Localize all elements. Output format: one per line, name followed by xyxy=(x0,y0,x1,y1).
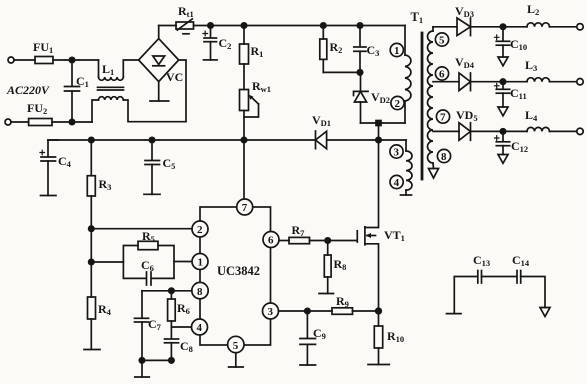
label C9 xyxy=(313,326,326,341)
node junction top of C1 xyxy=(69,57,74,62)
node junction C2 xyxy=(208,23,213,28)
ground C13 xyxy=(447,313,462,315)
ground R8 xyxy=(319,293,334,295)
diode VD4 xyxy=(459,73,527,91)
pin 5 xyxy=(228,336,244,352)
label VD5 xyxy=(456,108,478,123)
svg-text:8: 8 xyxy=(197,286,203,298)
svg-text:VC: VC xyxy=(166,70,183,84)
label VD3 xyxy=(455,4,474,19)
node junction C10 xyxy=(500,24,505,29)
label R9 xyxy=(336,294,349,309)
node junction C12 xyxy=(500,129,505,134)
resistor R10 xyxy=(374,311,382,365)
label C5 xyxy=(163,156,176,171)
wire xyxy=(53,59,99,61)
label C4 xyxy=(58,154,72,169)
pin 6 of T1 xyxy=(435,67,448,80)
wire output rail 3 xyxy=(433,130,459,132)
wire output rail 1 xyxy=(433,26,457,28)
label C12 xyxy=(511,139,528,154)
svg-text:5: 5 xyxy=(439,35,445,47)
ground C11 arrow xyxy=(498,107,508,116)
wire drain node riser xyxy=(378,123,380,140)
wire pin4 left xyxy=(171,326,191,328)
label L1 xyxy=(102,62,114,77)
resistor R6 xyxy=(168,291,176,327)
transformer T1 primary winding 1-2 xyxy=(405,26,411,124)
svg-text:1: 1 xyxy=(198,257,204,269)
node junction R1 top xyxy=(241,23,246,28)
resistor R4 xyxy=(88,262,96,350)
node AC input terminal N xyxy=(5,119,11,125)
resistor R9 xyxy=(332,308,379,315)
transformer T1 core xyxy=(421,33,424,179)
label L2 xyxy=(527,2,539,17)
node junction source xyxy=(376,308,382,314)
ground pin 5 xyxy=(229,353,244,367)
node junction R3 top xyxy=(89,137,94,142)
label C13 xyxy=(473,253,490,268)
capacitor C2 xyxy=(203,26,217,60)
wire down left branch xyxy=(90,229,92,262)
label R6 xyxy=(177,301,190,316)
ground C10 arrow xyxy=(498,57,508,66)
label Rt1 xyxy=(178,4,194,19)
svg-text:AC220V: AC220V xyxy=(6,83,50,97)
node junction bottom of C1 xyxy=(69,119,74,124)
node junction C8 bottom xyxy=(169,358,174,363)
label VD1 xyxy=(312,113,331,128)
inductor L1 common-mode choke xyxy=(92,60,186,122)
svg-text:2: 2 xyxy=(197,224,203,236)
pin 2 xyxy=(192,221,208,237)
ground R10 xyxy=(368,364,389,366)
svg-text:4: 4 xyxy=(394,177,400,189)
node output terminal 2 xyxy=(577,79,583,85)
node junction R5C6 feed xyxy=(89,259,94,264)
label L3 xyxy=(525,58,537,73)
capacitor C5 xyxy=(144,140,160,194)
svg-text:7: 7 xyxy=(440,112,446,124)
node junction R2/C3 bottom xyxy=(357,70,362,75)
svg-text:4: 4 xyxy=(197,322,203,334)
node junction bus-drain xyxy=(376,137,381,142)
label C3 xyxy=(367,43,380,58)
label AC220V xyxy=(6,83,50,97)
ground C7 xyxy=(135,360,150,377)
node junction pin2 feed xyxy=(89,226,94,231)
node junction C9 top xyxy=(305,308,310,313)
node junction R2 top xyxy=(321,23,326,28)
svg-text:1: 1 xyxy=(394,45,400,57)
label C11 xyxy=(510,86,527,101)
node junction C7 bottom xyxy=(139,358,144,363)
label VC xyxy=(166,70,183,84)
diode VD5 xyxy=(459,123,527,141)
transistor VT1 MOSFET xyxy=(357,140,378,311)
pin 6 xyxy=(263,232,279,248)
wire main bus xyxy=(48,139,406,141)
label R2 xyxy=(330,40,343,55)
label C6 xyxy=(141,258,154,273)
svg-text:7: 7 xyxy=(242,202,248,214)
wire bridge top riser xyxy=(158,26,160,39)
resistor R8 xyxy=(324,241,331,294)
label C14 xyxy=(512,253,530,268)
label T1 xyxy=(411,10,424,25)
label C8 xyxy=(180,339,193,354)
label R5 xyxy=(142,229,155,244)
label FU1 xyxy=(33,40,53,55)
wire C7-C8 bottom xyxy=(142,359,171,361)
capacitor C14 xyxy=(482,271,546,308)
label VD2 xyxy=(371,90,390,105)
wire pin6 to R7 xyxy=(279,240,289,242)
diode VD3 xyxy=(457,18,527,36)
transformer T1 secondary winding xyxy=(428,27,434,169)
node junction R8 top xyxy=(325,238,330,243)
pin 4 xyxy=(192,319,208,335)
inductor L4 xyxy=(527,127,577,131)
capacitor C3 xyxy=(354,26,366,73)
capacitor C8 xyxy=(165,327,179,360)
wire VD2 to winding bottom xyxy=(361,122,406,124)
wire pin8 left xyxy=(142,290,192,292)
capacitor C11 xyxy=(495,82,510,107)
svg-text:3: 3 xyxy=(268,306,274,318)
wire pin7 riser xyxy=(243,140,245,199)
pin 2 of T1 xyxy=(391,96,404,109)
pin 4 of T1 xyxy=(390,175,403,188)
label R4 xyxy=(98,302,112,317)
wire top rail xyxy=(194,25,406,27)
node junction C5 top xyxy=(149,137,154,142)
capacitor C4 xyxy=(40,140,58,196)
resistor R7 xyxy=(289,237,357,243)
ground secondary common arrow xyxy=(429,169,439,179)
label Rw1 xyxy=(252,79,271,94)
resistor R5 with capacitor C6 parallel loop xyxy=(123,241,174,285)
fuse FU1 xyxy=(35,57,53,64)
wire to R5C6 loop xyxy=(91,261,123,263)
pin 7 of T1 xyxy=(436,110,449,123)
wire output rail 2 xyxy=(433,81,459,83)
capacitor C1 xyxy=(65,60,80,122)
label C2 xyxy=(219,36,232,51)
wire pin3 right xyxy=(279,310,332,312)
svg-text:8: 8 xyxy=(441,151,447,163)
svg-text:UC3842: UC3842 xyxy=(217,264,260,278)
svg-text:3: 3 xyxy=(394,147,400,159)
potentiometer Rw1 xyxy=(240,90,259,141)
label C1 xyxy=(76,74,89,89)
label FU2 xyxy=(27,101,47,116)
node junction C3 top xyxy=(357,23,362,28)
pin 8 xyxy=(192,282,208,298)
node AC input terminal L xyxy=(8,57,14,63)
node output terminal 1 xyxy=(577,24,583,30)
capacitor C12 xyxy=(495,131,510,154)
svg-text:2: 2 xyxy=(395,98,401,110)
ground R4 xyxy=(84,349,100,351)
diode VD1 xyxy=(316,131,327,149)
capacitor C10 xyxy=(495,27,510,57)
pin 7 xyxy=(237,199,253,215)
label C7 xyxy=(148,317,162,332)
node output terminal 3 xyxy=(577,128,583,134)
ground T1 pin 4 lead xyxy=(401,194,412,196)
node junction R6 top xyxy=(169,288,174,293)
resistor R3 xyxy=(87,140,95,229)
ground C9 xyxy=(300,364,316,366)
node junction C11 xyxy=(500,79,505,84)
wire xyxy=(52,121,92,123)
pin 3 xyxy=(263,303,279,319)
label C10 xyxy=(510,37,527,52)
node square junction drain/snubber xyxy=(376,121,381,126)
fuse FU2 xyxy=(29,119,52,126)
pin 8 of T1 xyxy=(437,149,450,162)
bridge rectifier VC xyxy=(139,39,179,82)
pin 1 of T1 xyxy=(390,43,403,56)
label R10 xyxy=(387,329,404,344)
label R3 xyxy=(99,177,112,192)
thermistor Rt1 xyxy=(176,19,194,34)
ground C14 arrow xyxy=(540,308,550,317)
svg-text:6: 6 xyxy=(439,69,445,81)
svg-text:6: 6 xyxy=(268,235,274,247)
resistor R1 xyxy=(240,26,249,90)
zener diode VD2 xyxy=(354,72,369,123)
inductor L3 xyxy=(527,78,577,82)
inductor L2 xyxy=(527,23,577,27)
pin 3 of T1 xyxy=(390,145,403,158)
capacitor C9 xyxy=(300,311,316,365)
ground C12 arrow xyxy=(498,155,508,164)
wire xyxy=(11,121,29,123)
label R1 xyxy=(251,44,264,59)
wire loop to pin 1 xyxy=(174,261,192,263)
transformer T1 primary winding 3-4 xyxy=(406,140,412,195)
resistor R2 xyxy=(320,26,360,73)
pin 5 of T1 xyxy=(435,33,448,46)
label R8 xyxy=(334,257,347,272)
capacitor C13 xyxy=(454,271,481,314)
label VT1 xyxy=(384,228,405,243)
capacitor C7 xyxy=(135,291,149,361)
label L4 xyxy=(525,108,538,123)
wire to pin 2 xyxy=(91,228,192,230)
wire top rail left xyxy=(159,25,176,27)
label UC3842 xyxy=(217,264,260,278)
ground bridge bottom xyxy=(150,82,169,101)
label R7 xyxy=(292,223,306,238)
op-amp U1 UC3842 box xyxy=(200,207,271,345)
svg-text:5: 5 xyxy=(233,340,239,352)
pin 1 xyxy=(192,254,208,270)
label VD4 xyxy=(455,55,475,70)
wire xyxy=(14,59,35,61)
node junction pin7 riser bus xyxy=(241,137,246,142)
